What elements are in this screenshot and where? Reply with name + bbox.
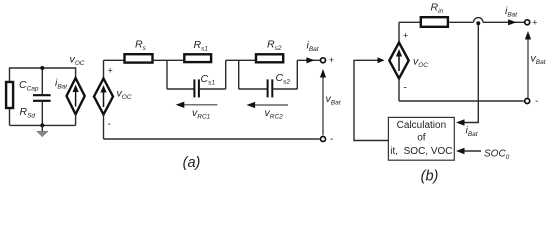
wire SOC0 input [465,150,482,152]
arrow into block (i_Bat sense) [456,119,465,125]
wire RC1 left branch [166,60,168,89]
resistor R_s1 [184,54,211,62]
voltage source v_OC (b) [389,22,408,101]
node top C_Cap junction [40,66,44,70]
wire control path block to source [354,60,388,140]
svg-text:it, SOC, VOC: it, SOC, VOC [390,146,452,157]
arrow SOC0 into block [456,148,465,154]
wire left-loop top rail [10,68,76,125]
svg-text:(b): (b) [421,169,439,185]
capacitor C_Cap [33,95,51,101]
capacitor C_s1 [194,79,199,97]
ground [37,125,48,136]
node sense tap junction [476,21,480,25]
svg-text:Calculation: Calculation [397,120,446,131]
svg-text:of: of [417,133,426,144]
capacitor C_s2 [268,79,273,97]
node bottom ground junction [40,123,44,127]
wire RC2 right branch [296,60,298,89]
terminal - (b) [525,99,530,104]
svg-text:+: + [403,31,408,41]
wire RC1 right branch [225,60,227,89]
wire R_s to RC1 [153,59,185,61]
wire left-loop bottom rail [10,124,76,126]
voltage source v_OC (a) [94,60,113,139]
wire i_Bat sense line [464,25,478,123]
terminal + (b) [525,20,530,25]
resistor R_Sd [6,82,13,108]
wire C_Cap branch bottom [41,102,43,126]
resistor R_in [421,17,448,27]
svg-text:-: - [108,119,111,130]
arrow v_RC1 [176,102,218,108]
wire C_Cap branch top [41,68,43,94]
wire RC2 to + terminal [297,59,320,61]
terminal - (a) [321,137,326,142]
svg-text:+: + [108,66,113,76]
current source i_Bat (diamond) [67,78,85,114]
wire bottom rail (b) [399,100,524,102]
arrow v_Bat (a) [320,69,326,135]
resistor R_s2 [256,54,283,62]
svg-text:-: - [535,96,538,107]
svg-text:(a): (a) [183,155,201,171]
wire top rail b: source to R_in [399,21,421,23]
arrow v_Bat (b) [525,31,531,98]
block calculation [388,117,454,160]
svg-text:-: - [330,134,333,145]
arrow control into v_OC source [378,57,385,63]
wire R_in to hop [449,21,474,23]
wire RC1 bottom right [200,88,226,90]
wire RC1 to RC2 [226,59,256,61]
wire hop to + terminal [483,21,524,23]
terminal + (a) [321,58,326,63]
arrow v_RC2 [247,102,289,108]
svg-text:-: - [404,83,407,94]
wire RC2 bottom right [273,88,297,90]
wire RC1 bottom left [167,88,194,90]
wire hop over sense tap [474,18,483,23]
wire bottom rail (a) [104,138,320,140]
wire i_Bat source to bottom rail [75,114,77,125]
wire RC2 bottom left [239,88,267,90]
arrow i_Bat (a) [306,57,314,63]
arrow i_Bat (b top) [508,19,516,25]
resistor R_s [125,54,153,62]
wire top rail a: source to R_s [104,59,125,61]
svg-text:+: + [329,55,334,65]
svg-text:+: + [532,18,537,28]
wire RC2 left branch [238,60,240,89]
